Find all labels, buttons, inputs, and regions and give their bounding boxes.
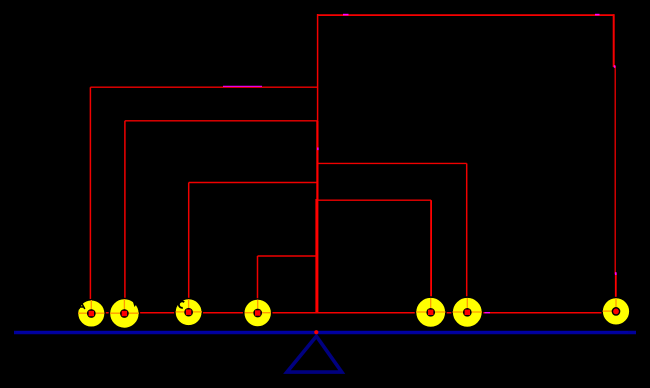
wire R1 horizontal y163 xyxy=(318,162,467,164)
wire center horizontal line y312.5 xyxy=(91,312,616,314)
weight W6 xyxy=(452,297,482,327)
weight W2 xyxy=(109,299,139,329)
beam xyxy=(14,331,636,335)
xor artifact magenta main vertical dot xyxy=(317,148,319,151)
wire L2 vertical hanger x125 xyxy=(124,121,126,314)
wire right vertical thin lower xyxy=(614,66,616,274)
xor artifact magenta center line segment xyxy=(485,312,491,314)
wire top horizontal xyxy=(317,14,614,16)
pivot dot xyxy=(314,330,318,334)
xor artifact magenta top line a xyxy=(343,14,349,16)
wire L4 vertical hanger x257 xyxy=(257,256,259,313)
weight W5 xyxy=(416,297,446,327)
xor artifact magenta L1 segment xyxy=(223,85,262,87)
wire main vertical upper xyxy=(317,14,319,125)
wire right vertical thick upper xyxy=(613,14,615,67)
xor artifact magenta right vertical low xyxy=(615,272,617,275)
wire L4 horizontal y256 xyxy=(258,255,317,257)
wire L1 vertical hanger x90 xyxy=(89,87,91,313)
weight W4 xyxy=(244,299,272,327)
weight W3 xyxy=(175,299,202,326)
beam bright core xyxy=(16,331,628,333)
wire main vertical lower thick xyxy=(315,199,318,313)
weight W1 xyxy=(78,300,106,328)
wire right vertical bright bottom xyxy=(615,273,617,311)
wire L3 vertical hanger x189 xyxy=(188,183,190,313)
fulcrum triangle xyxy=(287,336,342,372)
wire main vertical mid thick xyxy=(316,121,318,200)
xor artifact magenta right vertical xyxy=(614,65,616,68)
wire R2 vertical hanger x431 xyxy=(430,200,432,312)
wire L3 horizontal y182 xyxy=(189,182,317,184)
weight W7 xyxy=(602,298,630,326)
wire R1 vertical hanger x467 xyxy=(466,163,468,312)
xor artifact magenta top line b xyxy=(595,14,600,16)
wire L1 horizontal y87 xyxy=(90,86,317,88)
wire R2 horizontal y200 xyxy=(318,199,431,201)
wire L2 horizontal y121 xyxy=(125,120,317,122)
